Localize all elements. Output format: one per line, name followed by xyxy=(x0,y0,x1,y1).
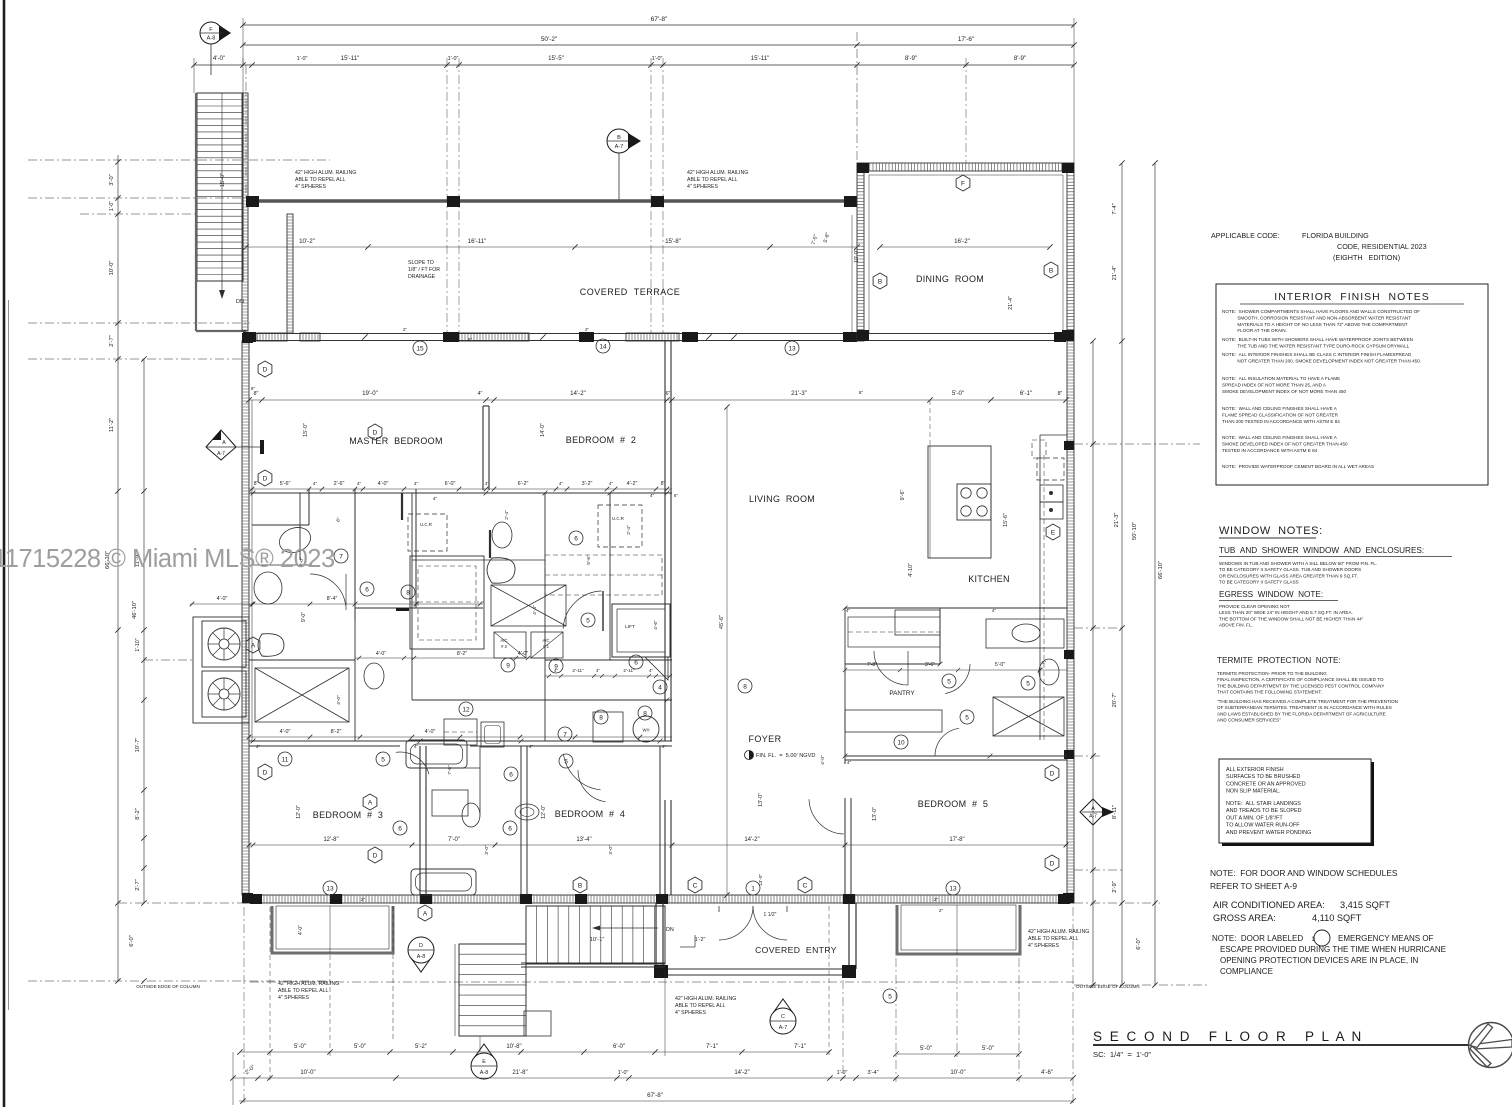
svg-text:ABOVE FIN. FL.: ABOVE FIN. FL. xyxy=(1219,623,1253,628)
svg-text:A-7: A-7 xyxy=(615,144,624,150)
svg-text:15'-11": 15'-11" xyxy=(751,55,770,62)
svg-text:7'-6": 7'-6" xyxy=(447,765,453,775)
svg-text:5'-0": 5'-0" xyxy=(294,1044,306,1050)
svg-text:1'-0": 1'-0" xyxy=(109,201,115,211)
svg-text:NOTE: DOOR LABELED: NOTE: DOOR LABELED xyxy=(1212,934,1303,943)
svg-text:2'-6": 2'-6" xyxy=(334,481,345,487)
svg-text:ABLE TO REPEL ALL: ABLE TO REPEL ALL xyxy=(675,1003,725,1009)
svg-text:OR ENCLOSURES WITH GLASS AREA: OR ENCLOSURES WITH GLASS AREA GREATER TH… xyxy=(1219,573,1358,578)
svg-text:2'-9": 2'-9" xyxy=(1112,881,1118,893)
svg-text:FLOOR AT THE DRAIN.: FLOOR AT THE DRAIN. xyxy=(1222,328,1287,333)
svg-text:TO BE CATEGORY II SAFETY GLASS: TO BE CATEGORY II SAFETY GLASS xyxy=(1219,580,1299,585)
svg-text:15'-0": 15'-0" xyxy=(303,423,309,437)
svg-text:A-8: A-8 xyxy=(417,954,425,960)
svg-text:PANTRY: PANTRY xyxy=(889,690,915,697)
svg-text:50'-10": 50'-10" xyxy=(1132,522,1138,540)
svg-text:9'-0": 9'-0" xyxy=(301,612,307,622)
svg-text:67'-8": 67'-8" xyxy=(647,1092,663,1099)
svg-text:SC: 1/4" = 1'-0": SC: 1/4" = 1'-0" xyxy=(1093,1050,1151,1059)
svg-text:4" SPHERES: 4" SPHERES xyxy=(278,995,310,1001)
svg-text:15'-8": 15'-8" xyxy=(665,238,681,245)
svg-text:THAN 200 TESTED IN ACCORDANCE: THAN 200 TESTED IN ACCORDANCE WITH ASTM … xyxy=(1222,419,1340,424)
svg-text:AND TREADS TO BE SLOPED: AND TREADS TO BE SLOPED xyxy=(1226,808,1302,814)
svg-text:4": 4" xyxy=(313,481,318,486)
svg-text:THE TUB AND THE WATER RESISTAN: THE TUB AND THE WATER RESISTANT TYPE DUR… xyxy=(1222,343,1410,348)
svg-text:4: 4 xyxy=(658,684,662,691)
svg-text:4": 4" xyxy=(414,744,419,749)
svg-text:AND LAWS ESTABLISHED BY THE FL: AND LAWS ESTABLISHED BY THE FLORIDA DEPA… xyxy=(1217,711,1386,716)
svg-text:5'-0": 5'-0" xyxy=(920,1046,932,1052)
svg-text:4'-0": 4'-0" xyxy=(378,481,389,487)
svg-text:2": 2" xyxy=(934,897,939,902)
svg-text:6'-0": 6'-0" xyxy=(129,935,135,947)
svg-text:4'-0": 4'-0" xyxy=(425,729,436,735)
svg-text:A-7: A-7 xyxy=(217,451,225,457)
svg-text:42" HIGH ALUM. RAILING: 42" HIGH ALUM. RAILING xyxy=(295,170,356,176)
svg-text:NOTE: SHOWER COMPARTMENTS SHA: NOTE: SHOWER COMPARTMENTS SHALL HAVE FLO… xyxy=(1222,309,1420,314)
svg-text:BEDROOM # 5: BEDROOM # 5 xyxy=(918,799,988,809)
svg-text:17'-6": 17'-6" xyxy=(958,36,974,43)
svg-text:6: 6 xyxy=(398,825,402,832)
svg-text:4": 4" xyxy=(357,481,362,486)
svg-text:42" HIGH ALUM. RAILING: 42" HIGH ALUM. RAILING xyxy=(278,981,339,987)
svg-text:1'-10": 1'-10" xyxy=(135,638,141,651)
svg-text:8": 8" xyxy=(661,481,666,487)
svg-text:B: B xyxy=(878,278,882,285)
svg-text:42" HIGH ALUM. RAILING: 42" HIGH ALUM. RAILING xyxy=(1028,929,1089,935)
svg-text:OUTSIDE EDGE OF COLUMN: OUTSIDE EDGE OF COLUMN xyxy=(136,984,200,989)
svg-text:CONCRETE OR AN APPROVED: CONCRETE OR AN APPROVED xyxy=(1226,781,1306,787)
svg-text:OUT A MIN. OF 1/8"/FT: OUT A MIN. OF 1/8"/FT xyxy=(1226,815,1283,821)
svg-text:10: 10 xyxy=(897,739,905,746)
svg-text:5: 5 xyxy=(381,756,385,763)
svg-text:15'-5": 15'-5" xyxy=(548,55,564,62)
svg-text:SURFACES TO BE BRUSHED: SURFACES TO BE BRUSHED xyxy=(1226,774,1300,780)
svg-text:42" HIGH ALUM. RAILING: 42" HIGH ALUM. RAILING xyxy=(687,170,748,176)
svg-text:SMOKE DEVELOPMENT INDEX OF NOT: SMOKE DEVELOPMENT INDEX OF NOT MORE THAN… xyxy=(1222,389,1347,394)
svg-text:ABLE TO REPEL ALL: ABLE TO REPEL ALL xyxy=(687,177,737,183)
svg-text:13'-0": 13'-0" xyxy=(758,793,764,807)
svg-text:14'-0": 14'-0" xyxy=(540,423,546,437)
svg-text:4": 4" xyxy=(992,608,997,613)
svg-text:5'-2": 5'-2" xyxy=(415,1044,427,1050)
svg-text:COVERED ENTRY: COVERED ENTRY xyxy=(755,945,837,955)
svg-text:3'-0": 3'-0" xyxy=(109,174,115,186)
svg-text:1'-0": 1'-0" xyxy=(297,56,308,62)
svg-text:8: 8 xyxy=(599,714,603,721)
svg-text:DN: DN xyxy=(666,927,674,933)
svg-text:1 1/2": 1 1/2" xyxy=(764,912,777,918)
svg-text:6": 6" xyxy=(666,391,671,397)
svg-text:4": 4" xyxy=(529,744,534,749)
svg-text:TESTED IN ACCORDANCE WITH ASTM: TESTED IN ACCORDANCE WITH ASTM E 84 xyxy=(1222,448,1318,453)
svg-text:12: 12 xyxy=(462,706,470,713)
svg-text:C: C xyxy=(781,1014,785,1020)
svg-text:7: 7 xyxy=(563,731,567,738)
svg-text:PROVIDE CLEAR OPENING NOT: PROVIDE CLEAR OPENING NOT xyxy=(1219,604,1290,609)
svg-text:AND PREVENT WATER PONDING: AND PREVENT WATER PONDING xyxy=(1226,830,1311,836)
svg-text:4": 4" xyxy=(650,493,655,498)
svg-text:4" SPHERES: 4" SPHERES xyxy=(675,1010,707,1016)
svg-text:4'-0": 4'-0" xyxy=(336,695,342,705)
svg-text:3'-4": 3'-4" xyxy=(867,1070,878,1076)
svg-text:1'-2": 1'-2" xyxy=(695,937,706,943)
svg-text:10'-0": 10'-0" xyxy=(109,261,115,276)
svg-text:NOTE: FOR DOOR AND WINDOW SCH: NOTE: FOR DOOR AND WINDOW SCHEDULES xyxy=(1210,868,1398,878)
svg-text:8: 8 xyxy=(643,710,647,717)
svg-text:B: B xyxy=(617,135,621,141)
svg-text:15'-11": 15'-11" xyxy=(341,55,360,62)
svg-text:8": 8" xyxy=(251,386,256,391)
svg-text:WH: WH xyxy=(643,728,650,733)
svg-text:6: 6 xyxy=(634,659,638,666)
svg-text:4'-10": 4'-10" xyxy=(908,563,914,577)
svg-text:4": 4" xyxy=(256,744,261,749)
svg-text:OUTSIDE EDGE OF COLUMN: OUTSIDE EDGE OF COLUMN xyxy=(1076,984,1140,989)
svg-text:TO ALLOW WATER RUN-OFF: TO ALLOW WATER RUN-OFF xyxy=(1226,823,1300,829)
svg-text:13'-4": 13'-4" xyxy=(576,837,591,843)
svg-text:ABLE TO REPEL ALL: ABLE TO REPEL ALL xyxy=(278,988,328,994)
svg-text:A: A xyxy=(1091,806,1095,812)
svg-text:EMERGENCY MEANS OF: EMERGENCY MEANS OF xyxy=(1338,934,1434,943)
svg-text:GROSS AREA:: GROSS AREA: xyxy=(1213,913,1276,923)
svg-text:10'-1": 10'-1" xyxy=(590,937,605,943)
svg-text:5: 5 xyxy=(947,678,951,685)
svg-text:NOT GREATER THAN 200, SMOKE DE: NOT GREATER THAN 200, SMOKE DEVELOPMENT … xyxy=(1222,358,1421,363)
svg-text:13: 13 xyxy=(326,885,334,892)
svg-text:14'-2": 14'-2" xyxy=(734,1070,749,1076)
svg-text:NOTE: WALL AND CEILING FINISH: NOTE: WALL AND CEILING FINISHES SHALL HA… xyxy=(1222,406,1338,411)
svg-text:EGRESS WINDOW NOTE:: EGRESS WINDOW NOTE: xyxy=(1219,590,1323,599)
svg-text:1: 1 xyxy=(751,885,755,892)
svg-text:4'-0": 4'-0" xyxy=(217,596,228,602)
svg-text:FLORIDA BUILDING: FLORIDA BUILDING xyxy=(1302,231,1369,240)
svg-text:15: 15 xyxy=(416,345,424,352)
svg-text:8: 8 xyxy=(743,683,747,690)
svg-text:D: D xyxy=(419,943,423,949)
svg-text:1'-0": 1'-0" xyxy=(618,1070,629,1076)
svg-text:7'-8": 7'-8" xyxy=(867,662,877,668)
svg-text:50'-2": 50'-2" xyxy=(541,36,557,43)
svg-text:4" SPHERES: 4" SPHERES xyxy=(687,184,719,190)
svg-text:B: B xyxy=(1049,267,1053,274)
svg-text:A: A xyxy=(222,440,226,446)
svg-text:A-7: A-7 xyxy=(779,1025,787,1031)
svg-text:13'-0": 13'-0" xyxy=(758,874,764,887)
svg-text:APPLICABLE CODE:: APPLICABLE CODE: xyxy=(1211,231,1280,240)
svg-text:15'-6": 15'-6" xyxy=(1003,513,1009,527)
svg-text:10'-2": 10'-2" xyxy=(299,238,315,245)
svg-text:COVERED TERRACE: COVERED TERRACE xyxy=(580,287,681,297)
svg-text:LIVING ROOM: LIVING ROOM xyxy=(749,494,815,504)
svg-text:9'-6": 9'-6" xyxy=(900,490,906,501)
svg-text:A-7: A-7 xyxy=(1089,814,1097,820)
svg-text:11715228 © Miami MLS® 2023: 11715228 © Miami MLS® 2023 xyxy=(0,545,335,573)
svg-text:ESCAPE PROVIDED DURING THE TIM: ESCAPE PROVIDED DURING THE TIME WHEN HUR… xyxy=(1220,945,1446,954)
svg-text:SMOKE DEVELOPED INDEX OF NOT G: SMOKE DEVELOPED INDEX OF NOT GREATER THA… xyxy=(1222,441,1348,446)
svg-text:5'-0": 5'-0" xyxy=(952,390,964,397)
svg-text:21'-3": 21'-3" xyxy=(791,390,807,397)
svg-text:C: C xyxy=(693,882,698,889)
svg-text:ABLE TO REPEL ALL: ABLE TO REPEL ALL xyxy=(1028,936,1078,942)
svg-text:20'-7": 20'-7" xyxy=(1112,693,1118,708)
svg-text:NOTE: WALL AND CEILING FINISH: NOTE: WALL AND CEILING FINISHES SHALL HA… xyxy=(1222,435,1338,440)
svg-text:THAT CONTAINS THE FOLLOWING ST: THAT CONTAINS THE FOLLOWING STATEMENT: xyxy=(1217,690,1322,695)
svg-text:ALL EXTERIOR FINISH: ALL EXTERIOR FINISH xyxy=(1226,767,1284,773)
svg-text:7'-1": 7'-1" xyxy=(706,1044,718,1050)
svg-text:4'-0": 4'-0" xyxy=(213,55,225,62)
svg-text:19'-0": 19'-0" xyxy=(362,390,378,397)
svg-text:4": 4" xyxy=(414,481,419,486)
svg-text:SMOOTH, CORROSION RESISTANT AN: SMOOTH, CORROSION RESISTANT AND NON-ABSO… xyxy=(1222,315,1411,320)
svg-text:FLAME SPREAD CLASSIFICATION OF: FLAME SPREAD CLASSIFICATION OF NOT GREAT… xyxy=(1222,412,1339,417)
svg-text:4": 4" xyxy=(847,760,852,765)
svg-text:5'-0": 5'-0" xyxy=(995,662,1005,668)
svg-text:5'-0": 5'-0" xyxy=(354,1044,366,1050)
svg-text:A-8: A-8 xyxy=(480,1070,488,1076)
svg-text:4": 4" xyxy=(485,481,490,486)
svg-text:MATERIALS TO A HEIGHT OF NO LE: MATERIALS TO A HEIGHT OF NO LESS THAN 72… xyxy=(1222,322,1408,327)
svg-text:6: 6 xyxy=(509,771,513,778)
svg-text:67'-8": 67'-8" xyxy=(651,16,668,23)
svg-text:2": 2" xyxy=(361,897,366,902)
svg-text:3'-0": 3'-0" xyxy=(608,845,614,855)
svg-text:4'-0": 4'-0" xyxy=(820,755,826,765)
svg-text:4": 4" xyxy=(609,481,614,486)
svg-text:4,110 SQFT: 4,110 SQFT xyxy=(1312,913,1362,923)
svg-text:6: 6 xyxy=(365,586,369,593)
svg-text:FOYER: FOYER xyxy=(748,734,781,744)
svg-text:5: 5 xyxy=(1026,680,1030,687)
svg-text:4": 4" xyxy=(649,668,653,673)
svg-text:4'-6": 4'-6" xyxy=(1041,1070,1053,1076)
svg-text:4": 4" xyxy=(433,496,438,501)
svg-text:21'-8": 21'-8" xyxy=(512,1070,527,1076)
svg-text:4": 4" xyxy=(478,391,483,397)
svg-text:KITCHEN: KITCHEN xyxy=(968,574,1010,584)
svg-text:MASTER BEDROOM: MASTER BEDROOM xyxy=(349,436,443,446)
svg-text:2'-7": 2'-7" xyxy=(109,335,115,347)
svg-text:D: D xyxy=(263,475,268,482)
svg-text:D: D xyxy=(263,769,268,776)
svg-text:13: 13 xyxy=(788,345,796,352)
svg-text:10'-7": 10'-7" xyxy=(135,738,141,753)
svg-text:BEDROOM # 4: BEDROOM # 4 xyxy=(555,809,625,819)
svg-text:6'-0": 6'-0" xyxy=(1136,938,1142,950)
svg-text:# 1: # 1 xyxy=(543,644,549,649)
svg-text:12'-0": 12'-0" xyxy=(541,805,547,819)
svg-text:DINING ROOM: DINING ROOM xyxy=(916,274,984,284)
svg-text:U.C.R: U.C.R xyxy=(420,522,432,527)
svg-text:NOTE: ALL INSULATION MATERIAL: NOTE: ALL INSULATION MATERIAL TO HAVE A … xyxy=(1222,376,1340,381)
svg-text:8'-2": 8'-2" xyxy=(135,808,141,820)
svg-text:A: A xyxy=(251,642,256,649)
svg-text:"THE BUILDING HAS RECEIVED A C: "THE BUILDING HAS RECEIVED A COMPLETE TR… xyxy=(1217,699,1398,704)
svg-text:THE BOTTOM OF THE WINDOW SHALL: THE BOTTOM OF THE WINDOW SHALL NOT BE HI… xyxy=(1219,616,1364,621)
svg-text:D: D xyxy=(373,852,378,859)
svg-text:4'-2": 4'-2" xyxy=(627,481,638,487)
svg-text:AND CONSUMER SERVICES": AND CONSUMER SERVICES" xyxy=(1217,718,1281,723)
svg-text:AIR CONDITIONED AREA:: AIR CONDITIONED AREA: xyxy=(1213,900,1325,910)
svg-text:E: E xyxy=(482,1059,486,1065)
svg-text:TUB AND SHOWER WINDOW AND: TUB AND SHOWER WINDOW AND ENCLOSURES: xyxy=(1219,546,1424,555)
svg-text:OF SUBTERRANEAN TERMITES. TREA: OF SUBTERRANEAN TERMITES. TREATMENT IS I… xyxy=(1217,705,1392,710)
svg-text:4" SPHERES: 4" SPHERES xyxy=(1028,943,1060,949)
svg-text:5'-6": 5'-6" xyxy=(586,555,592,565)
svg-text:45'-6": 45'-6" xyxy=(719,615,725,629)
svg-text:14'-2": 14'-2" xyxy=(570,390,586,397)
svg-text:WINDOW NOTES:: WINDOW NOTES: xyxy=(1219,525,1323,537)
svg-text:46'-10": 46'-10" xyxy=(132,601,138,619)
svg-text:11'-2": 11'-2" xyxy=(109,418,115,432)
svg-text:4'-0": 4'-0" xyxy=(376,651,386,657)
svg-text:5: 5 xyxy=(586,617,590,624)
svg-text:21'-3": 21'-3" xyxy=(1114,513,1120,528)
svg-text:15'-0": 15'-0" xyxy=(220,173,226,187)
svg-text:LESS THAN 20" WIDE 24" IN HEIG: LESS THAN 20" WIDE 24" IN HEIGHT AND 5.7… xyxy=(1219,610,1353,615)
svg-text:2'-7": 2'-7" xyxy=(135,879,141,891)
svg-text:7'-1": 7'-1" xyxy=(794,1044,806,1050)
svg-text:10'-8": 10'-8" xyxy=(506,1044,521,1050)
svg-text:14: 14 xyxy=(599,343,607,350)
svg-text:8": 8" xyxy=(1058,391,1063,397)
svg-text:INTERIOR FINISH NOTES: INTERIOR FINISH NOTES xyxy=(1274,291,1429,303)
svg-text:4'-0": 4'-0" xyxy=(518,651,528,657)
svg-text:3,415 SQFT: 3,415 SQFT xyxy=(1340,900,1390,910)
svg-text:SPREAD INDEX OF NOT MORE THAN: SPREAD INDEX OF NOT MORE THAN 25, AND A xyxy=(1222,382,1327,387)
svg-text:6: 6 xyxy=(574,535,578,542)
svg-text:LIFT: LIFT xyxy=(625,624,635,630)
svg-text:5: 5 xyxy=(965,714,969,721)
svg-text:A/C: A/C xyxy=(543,638,550,643)
svg-text:16'-11": 16'-11" xyxy=(468,238,487,245)
svg-text:A: A xyxy=(368,799,373,806)
svg-text:E: E xyxy=(1051,529,1056,536)
svg-text:7: 7 xyxy=(339,553,343,560)
svg-text:SLOPE TO: SLOPE TO xyxy=(408,260,434,266)
svg-text:6'-2": 6'-2" xyxy=(518,481,529,487)
svg-text:3'-6": 3'-6" xyxy=(925,662,935,668)
svg-text:8: 8 xyxy=(406,589,410,596)
svg-text:8": 8" xyxy=(254,391,259,397)
svg-text:9: 9 xyxy=(506,662,510,669)
svg-text:4": 4" xyxy=(596,668,600,673)
svg-text:6'-1": 6'-1" xyxy=(1020,390,1032,397)
svg-text:12'-0": 12'-0" xyxy=(296,805,302,819)
svg-text:BEDROOM # 3: BEDROOM # 3 xyxy=(313,810,383,820)
svg-text:12'-8": 12'-8" xyxy=(323,837,338,843)
svg-text:6'-0": 6'-0" xyxy=(445,481,456,487)
svg-text:4'-0": 4'-0" xyxy=(298,925,304,935)
svg-text:8'-4": 8'-4" xyxy=(327,596,338,602)
svg-text:14'-2": 14'-2" xyxy=(744,837,759,843)
svg-text:A-8: A-8 xyxy=(207,36,216,42)
svg-text:TO BE CATEGORY II SAFETY GLASS: TO BE CATEGORY II SAFETY GLASS. TUB AND … xyxy=(1219,567,1361,572)
svg-text:1/8" / FT FOR: 1/8" / FT FOR xyxy=(408,267,440,273)
svg-text:4" SPHERES: 4" SPHERES xyxy=(295,184,327,190)
svg-text:NON SLIP MATERIAL.: NON SLIP MATERIAL. xyxy=(1226,789,1281,795)
svg-text:ABLE TO REPEL ALL: ABLE TO REPEL ALL xyxy=(295,177,345,183)
svg-text:NOTE: BUILT-IN TUBS WITH SHOW: NOTE: BUILT-IN TUBS WITH SHOWERS SHALL H… xyxy=(1222,337,1413,342)
svg-text:1'-0": 1'-0" xyxy=(652,56,663,62)
svg-text:D: D xyxy=(373,429,378,436)
svg-text:9: 9 xyxy=(554,663,558,670)
svg-text:5'-6": 5'-6" xyxy=(280,481,291,487)
svg-text:FINAL INSPECTION, A CERTIFICAT: FINAL INSPECTION, A CERTIFICATE OF COMPL… xyxy=(1217,677,1384,682)
svg-text:D: D xyxy=(1050,860,1055,867)
svg-text:F: F xyxy=(961,180,965,187)
svg-text:7'-0": 7'-0" xyxy=(448,837,460,843)
svg-text:42" HIGH ALUM. RAILING: 42" HIGH ALUM. RAILING xyxy=(675,996,736,1002)
svg-text:D: D xyxy=(1050,770,1055,777)
svg-text:5: 5 xyxy=(564,758,568,765)
svg-text:OPENING PROTECTION DEVICES ARE: OPENING PROTECTION DEVICES ARE IN PLACE,… xyxy=(1220,956,1418,965)
svg-text:8": 8" xyxy=(859,390,864,395)
svg-text:4": 4" xyxy=(662,744,667,749)
svg-text:D: D xyxy=(263,366,268,373)
svg-text:5'-0": 5'-0" xyxy=(982,1046,994,1052)
svg-text:S E C O N D F L O O R P L: S E C O N D F L O O R P L A N xyxy=(1093,1029,1363,1044)
svg-text:U.C.R: U.C.R xyxy=(612,516,624,521)
svg-text:10'-0": 10'-0" xyxy=(300,1070,315,1076)
svg-text:11: 11 xyxy=(282,756,289,763)
svg-text:13: 13 xyxy=(949,885,957,892)
svg-text:4'-0": 4'-0" xyxy=(280,729,291,735)
svg-text:8'-2": 8'-2" xyxy=(331,729,342,735)
svg-text:21'-4": 21'-4" xyxy=(1008,296,1014,310)
svg-text:8'-9": 8'-9" xyxy=(1014,55,1026,62)
svg-text:A: A xyxy=(423,910,428,917)
svg-text:1'-0": 1'-0" xyxy=(448,56,459,62)
svg-text:6'-0": 6'-0" xyxy=(613,1044,625,1050)
svg-text:2'-4": 2'-4" xyxy=(504,510,510,520)
svg-text:FIN. FL. = 5.00' NGVD: FIN. FL. = 5.00' NGVD xyxy=(756,753,815,759)
svg-text:4": 4" xyxy=(846,608,851,613)
svg-text:1'-0": 1'-0" xyxy=(837,1070,848,1076)
svg-text:8'-9": 8'-9" xyxy=(905,55,917,62)
svg-text:16'-2": 16'-2" xyxy=(954,238,970,245)
svg-text:THE BUILDING DEPARTMENT BY THE: THE BUILDING DEPARTMENT BY THE LICENSED … xyxy=(1217,683,1384,688)
svg-text:4'-6": 4'-6" xyxy=(653,620,659,630)
svg-text:6": 6" xyxy=(674,493,679,498)
svg-text:DRAINAGE: DRAINAGE xyxy=(408,274,436,280)
svg-text:NOTE: PROVIDE WATERPROOF CEME: NOTE: PROVIDE WATERPROOF CEMENT BOARD IN… xyxy=(1222,464,1374,469)
svg-text:66'-10": 66'-10" xyxy=(1158,561,1164,579)
svg-text:2": 2" xyxy=(939,908,944,913)
svg-text:3'-0": 3'-0" xyxy=(484,845,490,855)
svg-text:6: 6 xyxy=(508,825,512,832)
svg-text:7'-4": 7'-4" xyxy=(1112,203,1118,215)
svg-text:CODE, RESIDENTIAL 2023: CODE, RESIDENTIAL 2023 xyxy=(1337,242,1427,251)
svg-text:C: C xyxy=(803,882,808,889)
svg-text:TERMITE PROTECTION NOTE:: TERMITE PROTECTION NOTE: xyxy=(1217,656,1341,665)
svg-text:NOTE: ALL INTERIOR FINISHES S: NOTE: ALL INTERIOR FINISHES SHALL BE CLA… xyxy=(1222,352,1412,357)
svg-text:5: 5 xyxy=(888,993,892,1000)
svg-text:6": 6" xyxy=(1042,660,1047,665)
svg-text:COMPLIANCE: COMPLIANCE xyxy=(1220,967,1273,976)
svg-text:17'-8": 17'-8" xyxy=(949,837,964,843)
svg-text:13'-0": 13'-0" xyxy=(872,807,878,821)
svg-text:4'-4": 4'-4" xyxy=(532,605,538,615)
svg-text:NOTE: ALL STAIR LANDINGS: NOTE: ALL STAIR LANDINGS xyxy=(1226,801,1301,807)
svg-text:F: F xyxy=(209,27,213,33)
svg-text:8'-2": 8'-2" xyxy=(457,651,467,657)
svg-text:2": 2" xyxy=(403,327,407,332)
svg-text:4": 4" xyxy=(559,481,564,486)
svg-text:WINDOWS IN TUB AND SHOWER WITH: WINDOWS IN TUB AND SHOWER WITH A SILL BE… xyxy=(1219,561,1377,566)
svg-text:3'-2": 3'-2" xyxy=(582,481,593,487)
svg-text:8": 8" xyxy=(468,337,473,342)
